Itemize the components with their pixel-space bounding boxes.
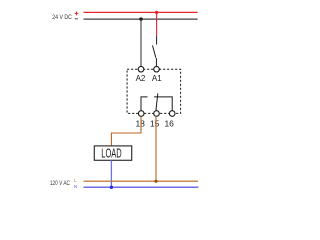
svg-text:A2: A2 — [136, 74, 146, 83]
svg-text:18: 18 — [135, 119, 145, 129]
svg-text:N: N — [74, 184, 77, 189]
svg-text:15: 15 — [150, 119, 160, 129]
svg-text:LOAD: LOAD — [101, 147, 121, 161]
svg-text:A1: A1 — [152, 74, 162, 83]
svg-text:24 V DC: 24 V DC — [52, 14, 72, 21]
svg-text:120 V AC: 120 V AC — [50, 180, 70, 187]
svg-text:16: 16 — [164, 119, 174, 129]
